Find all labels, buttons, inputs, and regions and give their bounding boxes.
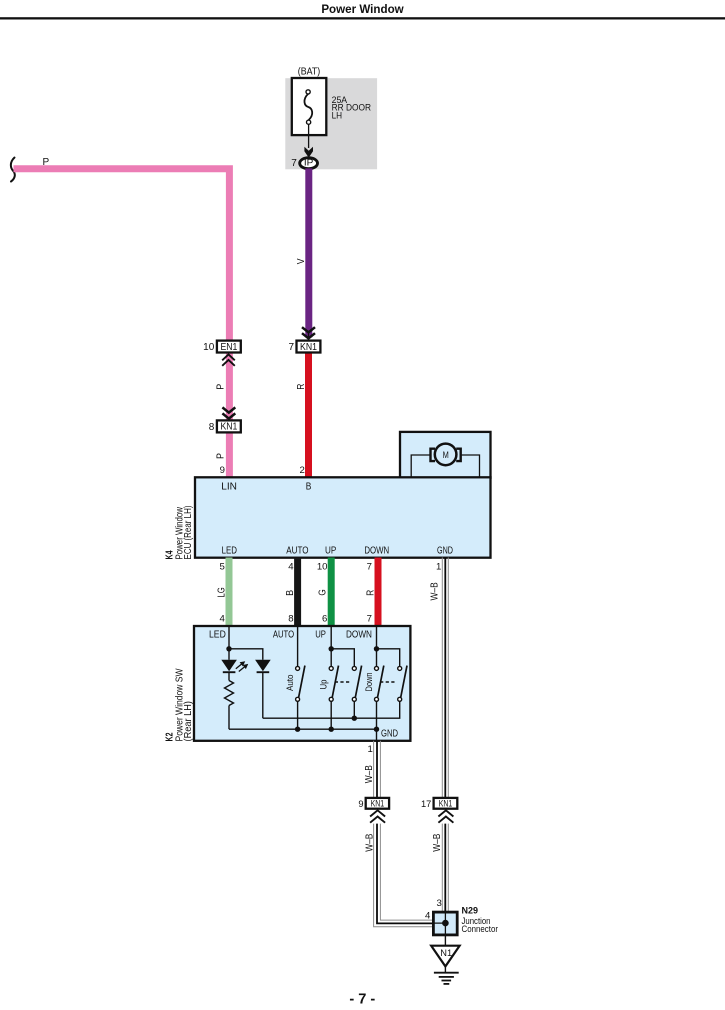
wire R red lower bbox=[375, 558, 382, 627]
svg-text:1: 1 bbox=[436, 561, 441, 572]
svg-text:KN1: KN1 bbox=[439, 798, 453, 808]
svg-text:R: R bbox=[366, 590, 377, 596]
switch Auto bbox=[296, 626, 305, 729]
female connector arrow into KN1 pin8 bbox=[222, 407, 235, 418]
svg-text:(Rear LH): (Rear LH) bbox=[183, 701, 194, 742]
svg-text:ECU (Rear LH): ECU (Rear LH) bbox=[183, 506, 194, 560]
fuse value label 25A RR DOOR LH bbox=[332, 95, 372, 121]
male connector chevrons below KN1-17 bbox=[438, 810, 453, 822]
svg-text:AUTO: AUTO bbox=[273, 630, 294, 641]
node LED junction bbox=[226, 646, 231, 651]
wire P pink horizontal+vertical bbox=[14, 169, 230, 341]
svg-text:10: 10 bbox=[317, 561, 328, 572]
node down-gnd bbox=[374, 727, 379, 732]
svg-text:9: 9 bbox=[358, 799, 363, 809]
wire P pink lower segment bbox=[226, 353, 233, 478]
svg-text:LIN: LIN bbox=[221, 482, 237, 493]
switch K2 box bbox=[194, 626, 410, 741]
junction node bbox=[442, 920, 449, 927]
connector KN1 (pin 7) bbox=[297, 341, 321, 353]
junction internal wires bbox=[433, 912, 445, 935]
svg-text:DOWN: DOWN bbox=[346, 630, 372, 641]
LED D1 bbox=[221, 660, 248, 672]
svg-text:7: 7 bbox=[367, 613, 372, 624]
switch Up main bbox=[329, 626, 339, 729]
Up gang dashed link bbox=[335, 681, 351, 683]
wire junction to ground point bbox=[444, 935, 446, 946]
svg-text:EN1: EN1 bbox=[220, 342, 237, 353]
svg-text:V: V bbox=[296, 258, 307, 264]
resistor bbox=[225, 672, 234, 729]
svg-text:G: G bbox=[318, 589, 329, 595]
ground symbol bbox=[434, 966, 459, 984]
ground point N1 triangle bbox=[431, 946, 459, 967]
svg-text:7: 7 bbox=[288, 342, 294, 353]
wire LED2 to latch contacts bbox=[263, 701, 400, 718]
left continuation squiggle bbox=[11, 158, 15, 182]
wire R red upper vertical bbox=[305, 353, 312, 478]
ECU K4 box bbox=[195, 477, 491, 557]
wire W-B striped line from GND bbox=[442, 558, 448, 798]
female connector arrow into KN1 pin7 bbox=[302, 327, 315, 340]
connector KN1 (pin 8) bbox=[217, 420, 241, 432]
node up-gnd bbox=[329, 727, 334, 732]
svg-text:B: B bbox=[306, 482, 312, 493]
Down gang dashed link bbox=[380, 681, 396, 683]
wire gnd to pin 1 bbox=[376, 729, 378, 741]
svg-text:KN1: KN1 bbox=[371, 798, 385, 808]
svg-text:UP: UP bbox=[325, 545, 337, 556]
svg-text:GND: GND bbox=[381, 729, 398, 740]
fuse 25A RR DOOR LH symbol bbox=[304, 90, 312, 124]
title rule bbox=[0, 17, 725, 19]
svg-text:3: 3 bbox=[436, 898, 441, 909]
node on latch wire bbox=[352, 716, 357, 721]
wire W-B below switch bbox=[374, 741, 381, 798]
svg-text:GND: GND bbox=[437, 545, 453, 556]
svg-text:Down: Down bbox=[364, 673, 374, 692]
svg-text:2: 2 bbox=[299, 465, 304, 476]
male connector chevrons below EN1 bbox=[222, 354, 235, 365]
wire W-B to junction connector (left) bbox=[374, 824, 434, 927]
svg-text:AUTO: AUTO bbox=[286, 545, 308, 556]
svg-text:DOWN: DOWN bbox=[364, 545, 389, 556]
svg-text:Power Window: Power Window bbox=[321, 3, 404, 16]
svg-text:B: B bbox=[285, 590, 296, 596]
shaded relay block background bbox=[285, 78, 377, 169]
svg-text:IP: IP bbox=[304, 158, 314, 168]
svg-text:N1: N1 bbox=[440, 948, 452, 958]
wire W-B to junction connector (right) bbox=[442, 824, 448, 912]
junction connector N29 box bbox=[433, 912, 457, 935]
wire LG light green bbox=[226, 558, 233, 627]
svg-text:W–B: W–B bbox=[432, 833, 443, 851]
svg-text:6: 6 bbox=[322, 613, 327, 624]
svg-text:17: 17 bbox=[421, 799, 431, 809]
wire V purple vertical bbox=[305, 168, 312, 337]
wire G green bbox=[328, 558, 335, 627]
connector IP oval bbox=[300, 158, 318, 169]
connector KN1 (pin 17) bbox=[434, 798, 458, 809]
GND bus wire bbox=[229, 728, 377, 730]
svg-text:Connector: Connector bbox=[462, 924, 499, 934]
svg-text:9: 9 bbox=[220, 465, 225, 476]
svg-text:LED: LED bbox=[222, 545, 237, 556]
svg-text:4: 4 bbox=[425, 911, 431, 922]
svg-text:W–B: W–B bbox=[364, 833, 375, 851]
svg-text:W–B: W–B bbox=[364, 765, 375, 783]
connector EN1 bbox=[217, 341, 241, 353]
svg-text:8: 8 bbox=[209, 422, 215, 433]
svg-text:P: P bbox=[216, 384, 227, 390]
switch Down main bbox=[374, 626, 384, 729]
svg-text:5: 5 bbox=[219, 561, 224, 572]
svg-text:(BAT): (BAT) bbox=[298, 67, 320, 78]
motor box bbox=[400, 432, 491, 478]
svg-text:- 7 -: - 7 - bbox=[349, 992, 375, 1008]
wire fuse to IP connector bbox=[308, 124, 310, 148]
svg-text:LG: LG bbox=[217, 587, 228, 597]
svg-text:UP: UP bbox=[315, 630, 326, 641]
svg-text:10: 10 bbox=[203, 342, 215, 353]
motor internal wiring bbox=[411, 455, 479, 478]
switch Up second pole bbox=[331, 649, 361, 718]
node auto-gnd bbox=[295, 727, 300, 732]
svg-text:4: 4 bbox=[219, 613, 225, 624]
fuse box outline bbox=[292, 78, 327, 135]
svg-text:W–B: W–B bbox=[430, 582, 441, 600]
svg-text:Up: Up bbox=[319, 680, 329, 690]
wire B black bbox=[294, 558, 301, 627]
motor M bbox=[431, 444, 461, 466]
connector KN1 (pin 9) bbox=[366, 798, 389, 809]
LED D2 bbox=[255, 660, 271, 718]
svg-text:4: 4 bbox=[288, 561, 294, 572]
svg-text:KN1: KN1 bbox=[220, 422, 237, 433]
svg-text:R: R bbox=[296, 384, 307, 390]
svg-text:7: 7 bbox=[367, 561, 372, 572]
male connector chevrons below KN1-9 bbox=[370, 810, 385, 822]
svg-text:1: 1 bbox=[367, 744, 372, 755]
svg-text:7: 7 bbox=[291, 158, 297, 169]
wire node to LED2 bbox=[229, 649, 263, 660]
svg-text:M: M bbox=[443, 450, 449, 461]
svg-text:LED: LED bbox=[209, 630, 226, 641]
svg-text:8: 8 bbox=[288, 613, 293, 624]
svg-text:Auto: Auto bbox=[285, 675, 295, 692]
svg-text:N29: N29 bbox=[462, 905, 479, 915]
svg-text:LH: LH bbox=[332, 110, 343, 120]
switch Down second pole bbox=[377, 649, 408, 702]
svg-text:KN1: KN1 bbox=[300, 342, 317, 353]
svg-text:P: P bbox=[216, 453, 227, 459]
wire pin4 to LED node bbox=[228, 626, 230, 660]
arrowhead into IP bbox=[304, 147, 313, 158]
